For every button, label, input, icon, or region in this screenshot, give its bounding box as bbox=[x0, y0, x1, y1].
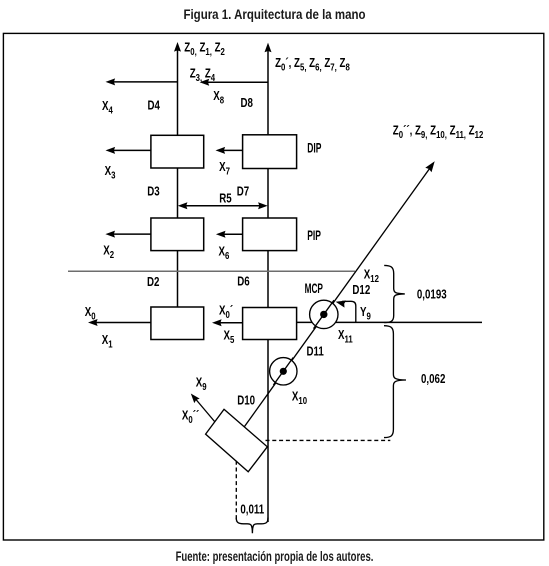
svg-text:D11: D11 bbox=[307, 345, 324, 358]
arrow X6 axis bbox=[216, 231, 243, 238]
wire: left chain segment D2 bbox=[177, 251, 179, 307]
arrow X8 axis bbox=[200, 79, 268, 86]
arrow X4 axis bbox=[106, 78, 178, 85]
wire: diagonal through D11 circle bbox=[273, 358, 293, 386]
svg-text:Z3, Z4: Z3, Z4 bbox=[190, 67, 215, 83]
svg-text:X3: X3 bbox=[105, 165, 116, 181]
svg-text:R5: R5 bbox=[219, 192, 231, 205]
figure title bbox=[49, 6, 499, 22]
arrow X7 axis bbox=[216, 147, 243, 154]
arrow X0p/X5 axis bbox=[212, 319, 243, 326]
dashed horizontal line at bottom of 0,062 span bbox=[266, 439, 391, 441]
svg-text:D6: D6 bbox=[237, 275, 249, 288]
curly brace for 0,011 (pointing down) bbox=[236, 518, 268, 534]
svg-text:D8: D8 bbox=[241, 97, 253, 110]
rotated link box (thumb metacarpal) bbox=[206, 409, 268, 472]
svg-text:X4: X4 bbox=[102, 100, 113, 116]
joint circle D11 (with center dot) bbox=[270, 358, 297, 385]
wire: right chain segment D7 bbox=[267, 169, 269, 219]
link box L1 (distal, left finger) bbox=[151, 135, 204, 168]
wire: right chain lower segment down to 0,011 brace bbox=[267, 340, 269, 523]
svg-text:X2: X2 bbox=[103, 245, 114, 261]
svg-text:Z0´, Z5, Z6, Z7, Z8: Z0´, Z5, Z6, Z7, Z8 bbox=[275, 57, 350, 73]
wire: right chain Z-axis line with up arrow bbox=[265, 43, 272, 135]
svg-text:D2: D2 bbox=[147, 276, 159, 289]
dimension arrow R5 (double headed) bbox=[178, 202, 268, 209]
wire: left chain Z-axis line with up arrow bbox=[174, 42, 181, 135]
wire: diagonal through MCP circle bbox=[314, 300, 335, 328]
link box R1 (distal, right finger / DIP) bbox=[243, 135, 297, 169]
svg-text:Z0´´, Z9, Z10, Z11, Z12: Z0´´, Z9, Z10, Z11, Z12 bbox=[393, 124, 484, 140]
svg-text:X11: X11 bbox=[338, 329, 353, 345]
svg-text:Y9: Y9 bbox=[360, 306, 371, 322]
curly brace for 0,062 bbox=[384, 326, 406, 438]
svg-text:D10: D10 bbox=[237, 394, 255, 407]
source caption bbox=[88, 548, 461, 564]
angle indicator Y9 arc arrow bbox=[336, 301, 356, 323]
link box R2 (middle, right finger / PIP) bbox=[243, 218, 297, 251]
arrow X9 / X0pp axis bbox=[191, 394, 215, 423]
svg-text:D7: D7 bbox=[237, 185, 249, 198]
svg-text:D4: D4 bbox=[148, 99, 161, 112]
link box L3 (proximal, left finger) bbox=[151, 307, 204, 340]
link box L2 (middle, left finger) bbox=[151, 218, 204, 251]
horizontal MCP axis line bbox=[297, 321, 482, 323]
svg-text:X8: X8 bbox=[213, 90, 224, 106]
arrow X0/X1 axis bbox=[88, 319, 151, 326]
link box R3 (proximal, right finger / MCP) bbox=[243, 308, 297, 340]
svg-text:X10: X10 bbox=[292, 390, 307, 406]
svg-text:X5: X5 bbox=[224, 329, 235, 345]
svg-text:X0´: X0´ bbox=[219, 305, 233, 321]
svg-text:X6: X6 bbox=[219, 245, 230, 261]
svg-text:PIP: PIP bbox=[307, 229, 321, 243]
arrow X2 axis bbox=[105, 231, 150, 238]
dashed vertical line from thumb box bbox=[235, 461, 237, 522]
svg-text:X12: X12 bbox=[364, 269, 379, 285]
svg-text:DIP: DIP bbox=[307, 142, 322, 156]
curly brace for 0,0193 bbox=[384, 265, 405, 322]
svg-text:0,062: 0,062 bbox=[421, 373, 445, 386]
svg-text:D12: D12 bbox=[352, 284, 370, 297]
wire: right chain segment D6 bbox=[267, 251, 269, 308]
diagonal thumb axis line with arrow (Z0pp) bbox=[235, 161, 435, 440]
gray horizontal reference line bbox=[68, 270, 355, 272]
svg-text:X9: X9 bbox=[196, 377, 207, 393]
arrow X3 axis bbox=[106, 147, 151, 154]
svg-text:0,011: 0,011 bbox=[240, 503, 264, 516]
joint circle MCP (with center dot) bbox=[310, 300, 338, 328]
svg-text:0,0193: 0,0193 bbox=[417, 289, 447, 302]
wire: left chain segment D3 bbox=[177, 168, 179, 218]
svg-text:MCP: MCP bbox=[305, 282, 324, 296]
svg-text:X0: X0 bbox=[85, 306, 96, 322]
svg-text:X1: X1 bbox=[102, 334, 113, 350]
svg-text:Z0, Z1, Z2: Z0, Z1, Z2 bbox=[184, 41, 225, 57]
svg-text:D3: D3 bbox=[147, 185, 159, 198]
svg-text:X7: X7 bbox=[219, 161, 230, 177]
svg-text:X0´´: X0´´ bbox=[182, 409, 200, 425]
